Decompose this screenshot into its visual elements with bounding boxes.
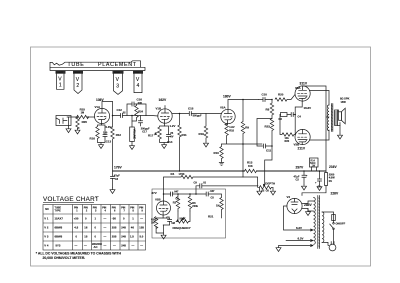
- svg-text:V 1: V 1: [44, 217, 49, 221]
- svg-text:C7: C7: [166, 215, 170, 219]
- node (C9 tap): [195, 193, 197, 195]
- svg-text:.01: .01: [203, 180, 207, 184]
- phase resistor R2: [176, 194, 179, 211]
- power resistor R1 2200ohm: [325, 171, 328, 186]
- node (R9 tap): [242, 99, 244, 101]
- svg-text:V1A: V1A: [95, 105, 102, 109]
- tone resistor R24: [132, 104, 138, 121]
- input jack J1: [56, 116, 71, 126]
- node (C11/R23): [271, 145, 273, 147]
- wire rectifier plate to HV winding: [302, 201, 314, 211]
- heater loop wire: [284, 206, 314, 231]
- feedback capacitor C5: [206, 192, 208, 197]
- B+ wire to OT center tap: [303, 86, 329, 171]
- node (C16 right / grid wire): [131, 115, 133, 117]
- svg-text:15K: 15K: [248, 164, 253, 168]
- triode V1A: [94, 108, 109, 123]
- cathode resistor R16: [96, 124, 102, 143]
- svg-text:15: 15: [84, 235, 88, 239]
- cathode resistor R18A: [222, 124, 244, 145]
- svg-text:46: 46: [131, 226, 135, 230]
- cathode pot R17: [155, 123, 165, 142]
- ground (R19): [204, 141, 209, 147]
- ground (C3): [110, 188, 115, 194]
- wire C8 to C5: [164, 193, 207, 195]
- svg-text:6BW8: 6BW8: [74, 72, 81, 74]
- filter capacitor C2: [302, 171, 307, 184]
- wire plate to C12: [113, 115, 121, 117]
- svg-text:6BW8: 6BW8: [55, 226, 63, 230]
- svg-text:R16: R16: [90, 137, 96, 141]
- grid stopper R20: [275, 95, 295, 102]
- svg-text:1.5: 1.5: [130, 235, 134, 239]
- svg-text:—: —: [113, 245, 116, 248]
- svg-text:—: —: [84, 245, 87, 248]
- svg-text:V2A: V2A: [220, 105, 227, 109]
- svg-text:TYPE: TYPE: [55, 209, 62, 212]
- AC plug P1: [329, 242, 336, 251]
- svg-text:C17: C17: [142, 129, 147, 133]
- oscillator enclosure box: [152, 189, 226, 238]
- svg-text:* ALL DC VOLTAGES MEASURED TO: * ALL DC VOLTAGES MEASURED TO CHASSIS WI…: [36, 252, 122, 256]
- ground (R25): [75, 128, 80, 134]
- wire jack to R15: [67, 117, 77, 127]
- tremolo coupling capacitor C11: [262, 144, 272, 149]
- wire V2A plate to 180V rail: [228, 100, 259, 110]
- grid resistor R8: [270, 100, 273, 119]
- svg-text:R25: R25: [82, 120, 88, 124]
- tube socket label EZ80 (V4): [133, 71, 143, 74]
- ground (V1B cathode): [162, 143, 167, 149]
- svg-text:R18: R18: [229, 129, 234, 133]
- svg-text:1: 1: [59, 82, 62, 88]
- osc output capacitor C9: [196, 183, 258, 194]
- filter capacitor C3: [110, 171, 115, 188]
- plate load resistor R4: [164, 175, 244, 201]
- wire V1B plate up: [164, 106, 166, 110]
- ground (C2): [302, 184, 307, 190]
- ground (volume): [130, 144, 135, 150]
- node (cathode column): [294, 114, 296, 116]
- svg-text:C10: C10: [262, 92, 268, 96]
- node (R11 top): [179, 113, 181, 115]
- plate load resistor R12: [111, 127, 114, 171]
- node (R4 to rail): [242, 171, 244, 177]
- voltage chart table grid: [43, 205, 146, 251]
- svg-text:R1: R1: [329, 179, 333, 183]
- filter resistor R14: [310, 158, 319, 171]
- svg-text:8Ω SPK: 8Ω SPK: [340, 97, 350, 101]
- dropping resistor R9: [241, 100, 244, 172]
- svg-text:C15: C15: [188, 106, 194, 110]
- svg-text:C2: C2: [296, 178, 300, 182]
- svg-text:R23: R23: [265, 124, 271, 128]
- svg-text:V 3: V 3: [44, 235, 49, 239]
- triode V2B: [157, 201, 171, 215]
- svg-text:3: 3: [116, 84, 119, 90]
- table row V3: [44, 235, 143, 239]
- svg-text:—: —: [140, 245, 143, 248]
- svg-text:6V: 6V: [170, 134, 173, 138]
- svg-text:1M: 1M: [171, 221, 175, 225]
- svg-text:ON/OFF: ON/OFF: [336, 221, 346, 225]
- svg-text:5.0: 5.0: [140, 235, 144, 239]
- tube socket label 6BW8 (V2): [73, 71, 83, 74]
- tube placement chassis bar: [50, 61, 145, 71]
- phase resistor R6: [188, 194, 191, 211]
- svg-text:R12: R12: [116, 133, 122, 137]
- svg-text:V 2: V 2: [44, 226, 49, 230]
- frequency pot R5: [176, 211, 190, 223]
- svg-text:20,000 OHM/VOLT METER.: 20,000 OHM/VOLT METER.: [43, 256, 86, 260]
- ground (depth left): [257, 187, 262, 195]
- svg-text:245: 245: [121, 226, 126, 230]
- wire C5 to R21: [208, 194, 221, 198]
- table row V1: [44, 217, 143, 221]
- svg-text:12AX7: 12AX7: [55, 217, 64, 221]
- tube tag V3: [114, 74, 123, 95]
- wire plate to C15: [172, 113, 189, 115]
- B+ rail 179V/297V: [113, 170, 327, 172]
- node (R9 bottom): [242, 170, 244, 172]
- cathode resistor R26: [154, 217, 163, 234]
- svg-text:4: 4: [137, 83, 140, 89]
- pentode V3A: [295, 86, 310, 101]
- svg-text:—: —: [104, 227, 107, 230]
- injection wire (depth wiper to C11): [265, 146, 272, 186]
- table row V4: [44, 242, 143, 249]
- svg-text:5Y3: 5Y3: [56, 244, 61, 248]
- svg-text:220k: 220k: [192, 204, 198, 208]
- svg-text:2: 2: [76, 83, 79, 89]
- svg-text:162V: 162V: [159, 98, 168, 102]
- node (C5 left): [189, 193, 191, 195]
- svg-text:R10: R10: [214, 151, 220, 155]
- ground (PT secondary CT): [276, 245, 313, 252]
- triode V1B: [158, 109, 172, 123]
- svg-text:.047: .047: [210, 189, 216, 193]
- tube tag V1: [57, 74, 65, 90]
- ground (rectifier shield): [306, 209, 311, 216]
- heater wire 6.3V: [286, 240, 313, 242]
- ground (depth right): [271, 187, 276, 195]
- treble capacitor C16: [127, 102, 146, 116]
- svg-text:V2B: V2B: [155, 197, 161, 201]
- svg-text:C4: C4: [298, 114, 302, 118]
- svg-text:179V: 179V: [114, 166, 123, 170]
- filter capacitor C1: [317, 171, 322, 185]
- dropping resistor R13: [245, 169, 257, 172]
- svg-text:16: 16: [84, 226, 88, 230]
- plate wire V3A to OT: [309, 91, 329, 106]
- svg-text:16.8V: 16.8V: [304, 106, 312, 110]
- svg-text:V3A: V3A: [295, 86, 302, 90]
- svg-text:V1B: V1B: [156, 107, 162, 111]
- output transformer T2 primary: [327, 105, 329, 131]
- power transformer primary: [322, 212, 324, 242]
- cathode network wire: [295, 101, 302, 131]
- svg-text:245: 245: [121, 244, 126, 248]
- svg-text:FREQUENCY: FREQUENCY: [173, 226, 191, 230]
- svg-text:R21: R21: [208, 214, 214, 218]
- feedback capacitor C8: [171, 192, 173, 197]
- fuse F1: [322, 212, 335, 221]
- svg-text:C9: C9: [194, 180, 198, 184]
- svg-text:AC: AC: [94, 245, 98, 249]
- ground (oscillator): [161, 225, 166, 239]
- svg-text:C13: C13: [106, 139, 112, 143]
- node (C10/R20 junction): [271, 99, 273, 101]
- svg-text:.02: .02: [122, 110, 126, 114]
- svg-text:180V: 180V: [223, 95, 232, 99]
- grid resistor R19: [204, 114, 207, 142]
- node (R11 bottom): [179, 170, 181, 172]
- output transformer core: [331, 104, 332, 132]
- wire V3B grid column: [294, 131, 296, 135]
- svg-text:C16: C16: [137, 98, 143, 102]
- switch SW on/off: [330, 221, 335, 244]
- capacitor C4: [291, 112, 295, 117]
- svg-text:1M: 1M: [151, 221, 155, 225]
- svg-text:.047: .047: [174, 189, 180, 193]
- svg-text:500K: 500K: [180, 216, 186, 220]
- svg-text:87V: 87V: [152, 191, 157, 195]
- svg-text:226V: 226V: [331, 192, 340, 196]
- svg-text:+30: +30: [74, 217, 79, 221]
- svg-text:311V: 311V: [300, 81, 308, 85]
- ground (speaker): [338, 126, 343, 140]
- svg-text:R8: R8: [266, 107, 270, 111]
- tube tag V4: [134, 74, 142, 93]
- svg-text:R22: R22: [285, 139, 290, 143]
- cathode capacitor C7: [163, 215, 172, 225]
- speaker SP1: [338, 108, 346, 125]
- tube socket label 12AX7 (V1): [56, 71, 66, 74]
- wire to V1B grid: [146, 115, 158, 118]
- plate wire V3B to OT: [309, 130, 329, 140]
- svg-text:6.3V: 6.3V: [298, 237, 304, 241]
- ground (V1A cathode): [99, 143, 104, 149]
- svg-text:100: 100: [103, 130, 108, 134]
- svg-text:1M: 1M: [81, 111, 85, 115]
- svg-text:4.8: 4.8: [74, 226, 78, 230]
- tube tag V2: [74, 74, 82, 94]
- node (C8 right): [177, 193, 179, 195]
- svg-text:R20: R20: [278, 92, 284, 96]
- wire R8/R23 junction loop: [257, 119, 272, 147]
- svg-text:R3: R3: [279, 117, 283, 121]
- svg-text:1.2V: 1.2V: [170, 124, 176, 128]
- wire V1A plate to B+: [102, 102, 113, 109]
- svg-text:C3: C3: [115, 177, 119, 181]
- svg-text:R24: R24: [138, 109, 143, 113]
- grid resistor R23: [270, 119, 273, 147]
- svg-text:R17: R17: [148, 134, 154, 138]
- svg-text:R19: R19: [199, 132, 205, 136]
- svg-text:—: —: [104, 245, 107, 248]
- svg-text:VOLUME: VOLUME: [132, 129, 135, 140]
- wire rail to depth pot: [202, 177, 258, 187]
- svg-text:1M: 1M: [216, 203, 220, 207]
- svg-text:211V: 211V: [298, 146, 306, 150]
- resistor R15: [77, 115, 89, 118]
- svg-text:PLACEMENT: PLACEMENT: [98, 62, 137, 68]
- svg-text:—: —: [104, 218, 107, 221]
- svg-text:R9: R9: [245, 126, 249, 130]
- pentode V3B: [295, 129, 310, 144]
- wire R1 to rectifier cathode: [302, 186, 326, 196]
- grid resistor R21: [220, 198, 223, 219]
- node (plate): [163, 193, 165, 195]
- node (C2 tap): [303, 170, 305, 172]
- volume control box: [130, 116, 136, 144]
- depth pot R7: [258, 184, 272, 189]
- svg-text:245: 245: [121, 235, 126, 239]
- svg-text:TUBE: TUBE: [68, 62, 85, 68]
- node (plate/C12): [112, 115, 114, 117]
- triode V2A: [221, 109, 235, 123]
- table row V2: [44, 226, 144, 230]
- svg-text:—: —: [75, 245, 78, 248]
- ground (R10): [219, 161, 224, 166]
- svg-text:6BW8: 6BW8: [55, 235, 63, 239]
- power transformer core: [318, 196, 320, 249]
- table header row: [45, 206, 143, 212]
- svg-text:R2: R2: [173, 201, 177, 205]
- node (cathode line / R9): [242, 143, 244, 145]
- output transformer secondary: [335, 110, 338, 126]
- svg-text:VOLTAGE CHART: VOLTAGE CHART: [43, 196, 99, 203]
- ground (input jack): [66, 127, 71, 133]
- resistor R25: [76, 117, 79, 129]
- svg-text:0.8V: 0.8V: [106, 125, 112, 129]
- node (C1 tap): [319, 170, 321, 172]
- tail resistor R10: [220, 144, 223, 161]
- wire PT primary bottom to plug: [322, 242, 329, 245]
- svg-text:C5: C5: [211, 195, 215, 199]
- svg-text:1.9V: 1.9V: [229, 125, 235, 129]
- svg-text:R11: R11: [182, 133, 188, 137]
- svg-text:—: —: [104, 236, 107, 239]
- wire C12 to node A: [123, 115, 147, 117]
- svg-text:170K: 170K: [179, 172, 185, 176]
- svg-text:500μμF: 500μμF: [193, 114, 202, 118]
- svg-text:155: 155: [139, 226, 144, 230]
- svg-text:EZ80: EZ80: [134, 72, 140, 74]
- plate load resistor R11: [178, 114, 181, 172]
- wire C15 to V2A grid: [191, 113, 221, 115]
- svg-text:DEPTH: DEPTH: [265, 181, 275, 185]
- svg-text:216V: 216V: [329, 165, 338, 169]
- svg-text:47μF: 47μF: [114, 173, 120, 177]
- coupling capacitor C15: [189, 111, 191, 116]
- svg-text:.005: .005: [137, 101, 143, 105]
- wire cathode line to R23 column: [243, 143, 262, 145]
- ground (C1): [317, 185, 322, 191]
- svg-text:255: 255: [112, 226, 117, 230]
- bypass capacitor C14: [164, 126, 171, 143]
- rectifier V4: [287, 198, 302, 213]
- svg-text:4.5W: 4.5W: [329, 176, 336, 180]
- svg-text:R4: R4: [171, 172, 175, 176]
- svg-text:15W: 15W: [341, 100, 347, 104]
- svg-text:12AX7: 12AX7: [56, 71, 63, 74]
- svg-text:C6: C6: [266, 188, 270, 192]
- capacitor C17: [138, 116, 143, 127]
- coupling capacitor C10: [259, 97, 273, 102]
- svg-text:6.3V: 6.3V: [296, 226, 302, 230]
- wire R15 to grid: [89, 116, 95, 118]
- svg-text:V 4: V 4: [44, 244, 49, 248]
- svg-text:C14: C14: [167, 140, 173, 144]
- svg-text:297V: 297V: [296, 166, 305, 170]
- svg-text:C11: C11: [266, 149, 272, 153]
- coupling capacitor C12: [121, 113, 123, 118]
- svg-text:6BW8: 6BW8: [114, 72, 121, 74]
- bypass capacitor C13: [101, 125, 107, 143]
- svg-text:NO: NO: [45, 208, 49, 211]
- svg-text:—: —: [132, 245, 135, 248]
- tube socket label 6BW8 (V3): [113, 71, 124, 74]
- svg-text:255: 255: [112, 235, 117, 239]
- svg-text:—: —: [140, 218, 143, 221]
- plate load feed wire: [112, 102, 114, 128]
- screen resistor R3: [280, 113, 291, 117]
- power transformer T1 secondary: [314, 198, 316, 245]
- border frame: [31, 47, 371, 266]
- node (grid junction): [87, 116, 89, 118]
- svg-text:-36: -36: [112, 217, 116, 221]
- feedback resistor R22: [280, 115, 295, 137]
- svg-text:V4: V4: [287, 195, 291, 199]
